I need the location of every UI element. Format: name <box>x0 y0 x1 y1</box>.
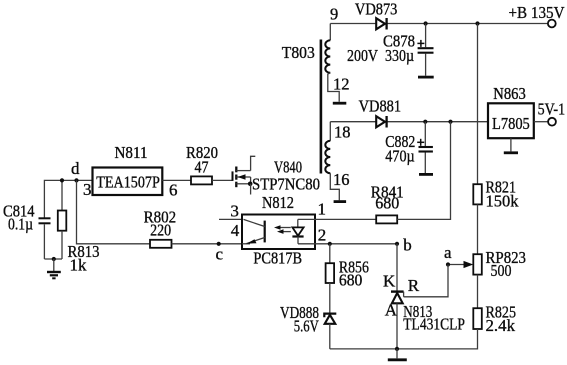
svg-text:1: 1 <box>318 199 327 218</box>
resistor R856 <box>326 244 369 290</box>
wire opto pin1 to R841 <box>315 218 376 220</box>
svg-text:1k: 1k <box>70 256 88 275</box>
svg-text:220: 220 <box>150 220 171 239</box>
svg-text:c: c <box>216 245 224 264</box>
ic N811 TEA1507P <box>93 143 163 195</box>
wire VD881 row <box>330 121 488 123</box>
junction dot R841 column <box>448 120 452 124</box>
resistor R813 <box>58 180 100 274</box>
winding 9-12 <box>325 5 349 102</box>
opto phototransistor <box>242 219 265 243</box>
capacitor C882 <box>385 122 433 175</box>
junction dot C882 top <box>423 120 427 124</box>
transistor V840 STP7NC80 mosfet <box>233 156 321 194</box>
wire node d down to R802 row <box>77 180 151 243</box>
svg-text:330µ: 330µ <box>385 46 414 65</box>
wire L7805 out <box>534 121 548 123</box>
svg-text:2.4k: 2.4k <box>486 316 516 335</box>
svg-text:3: 3 <box>230 202 239 221</box>
svg-text:T803: T803 <box>282 43 315 62</box>
svg-text:TL431CLP: TL431CLP <box>403 315 465 334</box>
svg-text:47: 47 <box>195 158 209 177</box>
wire +B rail <box>330 23 547 25</box>
capacitor C814 <box>3 202 51 260</box>
diode VD873 <box>355 0 398 30</box>
svg-text:A: A <box>385 301 398 320</box>
shunt regulator N813 TL431CLP <box>383 244 465 349</box>
resistor R820 <box>186 143 218 184</box>
svg-text:b: b <box>403 236 412 255</box>
node d <box>71 159 80 182</box>
svg-text:N811: N811 <box>115 143 148 162</box>
svg-text:12: 12 <box>333 75 350 94</box>
resistor R821 <box>473 178 519 211</box>
svg-text:TEA1507P: TEA1507P <box>96 173 160 192</box>
wire divider column <box>477 24 479 185</box>
svg-text:5.6V: 5.6V <box>294 317 320 336</box>
resistor R825 <box>473 303 516 335</box>
wire node a down to TL431 ref <box>404 265 448 297</box>
svg-text:9: 9 <box>330 5 338 24</box>
junction dot R813 top <box>60 178 64 182</box>
svg-text:500: 500 <box>491 261 512 280</box>
junction dot bottom rail <box>395 347 399 351</box>
wire opto pin2 to node b <box>315 243 397 245</box>
svg-text:d: d <box>71 159 80 178</box>
svg-text:680: 680 <box>339 271 363 290</box>
svg-text:VD873: VD873 <box>355 0 398 19</box>
diode VD881 <box>359 97 402 128</box>
terminal +B 135V <box>509 3 566 27</box>
optocoupler N812 PC817B box <box>242 193 315 268</box>
junction dot C878 top <box>424 21 428 25</box>
svg-text:+B 135V: +B 135V <box>509 3 566 22</box>
wire left top rail to N811 pin3 <box>44 180 92 217</box>
svg-text:16: 16 <box>333 170 350 189</box>
wire R841 right up to VD881 row <box>397 122 450 220</box>
wire opto pin3 stub <box>219 218 242 220</box>
wire R821 to RP823 <box>477 204 479 254</box>
svg-text:VD881: VD881 <box>359 97 402 116</box>
svg-text:470µ: 470µ <box>385 147 415 166</box>
ground <box>47 259 61 278</box>
winding 18-16 <box>325 122 350 201</box>
svg-text:150k: 150k <box>486 191 519 210</box>
svg-text:N863: N863 <box>493 84 526 103</box>
wire R825 to bottom rail <box>330 329 478 349</box>
wire bottom left <box>44 258 62 260</box>
junction dot R856 top <box>328 242 332 246</box>
svg-text:2: 2 <box>318 226 327 245</box>
svg-text:5V-1: 5V-1 <box>538 100 566 119</box>
junction dot column top <box>475 21 479 25</box>
resistor R802 <box>144 207 177 248</box>
junction dot left bottom <box>52 257 56 261</box>
wire R820 to gate <box>212 179 233 181</box>
terminal 5V-1 <box>538 100 566 126</box>
svg-text:4: 4 <box>231 221 240 240</box>
svg-text:L7805: L7805 <box>492 114 530 133</box>
transformer T803 core <box>282 40 321 174</box>
zener VD888 <box>280 283 336 349</box>
opto led <box>292 219 315 243</box>
wire RP823 to R825 <box>477 275 479 309</box>
svg-text:18: 18 <box>334 122 351 141</box>
potentiometer RP823 <box>448 248 526 280</box>
node a <box>444 243 452 266</box>
ground bar pin16 <box>334 200 347 203</box>
svg-text:6: 6 <box>169 181 178 200</box>
svg-text:200V: 200V <box>347 46 379 65</box>
ground L7805 <box>504 138 518 153</box>
node b <box>395 236 412 255</box>
wire N811 pin6 to R820 <box>162 179 191 181</box>
capacitor C878 <box>347 24 434 78</box>
svg-text:STP7NC80: STP7NC80 <box>252 175 320 194</box>
svg-text:a: a <box>444 243 452 262</box>
ground bar pin12 <box>333 102 347 105</box>
svg-text:3: 3 <box>83 180 92 199</box>
svg-text:PC817B: PC817B <box>253 249 302 268</box>
svg-text:0.1µ: 0.1µ <box>8 215 33 234</box>
node c <box>216 242 224 264</box>
opto light arrows <box>274 225 291 234</box>
svg-text:680: 680 <box>375 193 399 212</box>
ground bottom rail <box>388 349 407 360</box>
wire R802 to opto pin4 <box>172 243 243 245</box>
ic N863 L7805 <box>488 84 534 138</box>
svg-text:N812: N812 <box>262 193 294 212</box>
resistor R841 <box>371 183 404 224</box>
svg-text:R: R <box>408 276 420 295</box>
svg-text:K: K <box>383 272 396 291</box>
